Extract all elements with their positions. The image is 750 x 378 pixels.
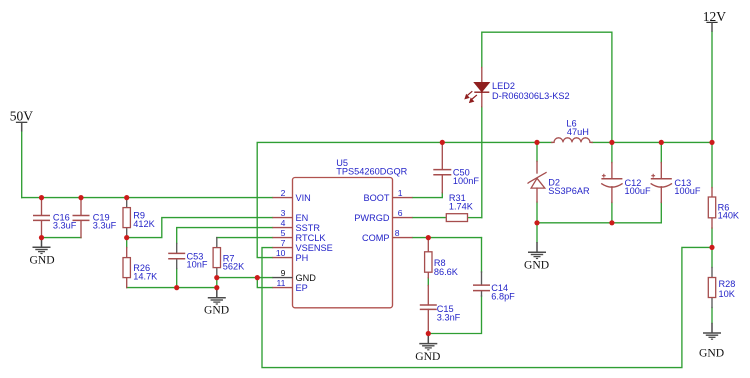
svg-text:6: 6 [398, 208, 403, 218]
wire switch rail right of L6 [592, 141, 712, 143]
svg-text:GND: GND [415, 350, 440, 363]
resistor R7 [213, 248, 220, 268]
pin stub R7 top [216, 238, 218, 248]
svg-text:SS3P6AR: SS3P6AR [548, 186, 590, 196]
node VIN/R9 [124, 195, 129, 200]
svg-text:R28: R28 [719, 279, 736, 289]
wire R28 top [711, 247, 713, 267]
wire R28 bottom [711, 308, 713, 323]
svg-text:10K: 10K [719, 289, 736, 299]
svg-text:5: 5 [281, 228, 286, 238]
svg-text:GND: GND [30, 254, 55, 267]
wire gnd stem upper link [216, 278, 218, 288]
svg-text:2: 2 [281, 188, 286, 198]
svg-text:GND: GND [699, 347, 724, 360]
svg-text:PH: PH [296, 253, 309, 263]
pin 8 COMP [393, 237, 413, 239]
pin stub C16 bottom [41, 221, 43, 238]
pin stub L6 left [552, 141, 554, 143]
resistor R6 [708, 197, 715, 218]
IC pin names right [354, 193, 390, 243]
pin stub R6 top [711, 188, 713, 197]
ground under C16 [33, 238, 51, 254]
svg-text:100uF: 100uF [625, 186, 651, 196]
svg-text:10nF: 10nF [187, 260, 208, 270]
node VIN/C16 [39, 195, 44, 200]
node VIN/C19 [78, 195, 83, 200]
IC pin numbers left [276, 188, 286, 288]
node C12 gnd rail [609, 220, 614, 225]
pin stub C53 bottom [176, 259, 178, 269]
wire C13 bottom [660, 202, 662, 222]
wire BOOT to C50 [413, 193, 443, 198]
svg-text:GND: GND [204, 304, 229, 317]
wire PWRGD to R31 [413, 217, 447, 219]
pin stub D2 top [536, 161, 538, 173]
svg-text:RTCLK: RTCLK [296, 233, 327, 243]
pin stub R7 bottom [216, 268, 218, 278]
node D2 gnd rail [534, 220, 539, 225]
resistor R26 [123, 258, 130, 278]
svg-text:11: 11 [276, 278, 285, 288]
pin stub C12 bottom [611, 187, 613, 203]
pin stub C12 top [611, 163, 613, 179]
pin stub LED bottom [481, 92, 483, 107]
svg-text:562K: 562K [223, 262, 245, 272]
wire R31 to LED branch [468, 217, 482, 219]
capacitor C50 [433, 170, 451, 175]
power port 50V [10, 109, 34, 132]
pin stub C50 bottom [441, 175, 443, 193]
svg-text:SSTR: SSTR [296, 223, 321, 233]
capacitor C19 [73, 216, 90, 221]
wire D2 bottom [536, 202, 538, 223]
pin stub C13 bottom [660, 187, 662, 203]
pin stub R6 bottom [711, 218, 713, 228]
node SW/D2 [534, 140, 539, 145]
wire VIN rail [22, 197, 273, 199]
svg-text:8: 8 [395, 228, 400, 238]
resistor R28 [708, 278, 715, 298]
wire RTCLK to R7 [217, 237, 273, 239]
pin stub R8 top [427, 238, 429, 252]
pin stub C19 bottom [80, 221, 82, 238]
pin 10 PH [273, 257, 293, 259]
svg-text:COMP: COMP [362, 233, 390, 243]
pin stub R8 mid [427, 272, 429, 278]
svg-text:10: 10 [276, 248, 286, 258]
pin 2 VIN [273, 197, 293, 199]
pin 5 RTCLK [273, 237, 293, 239]
node FB divider [709, 245, 714, 250]
svg-text:EP: EP [296, 283, 308, 293]
wire C12 top [611, 142, 613, 162]
wire R26 bottom to gnd stem [127, 287, 217, 289]
svg-text:100uF: 100uF [674, 186, 700, 196]
power port 12V [703, 9, 727, 32]
wire GND pin row [217, 277, 273, 279]
pin 4 SSTR [273, 227, 293, 229]
inductor L6 [554, 138, 590, 143]
ground under D2 [528, 242, 546, 258]
svg-text:3.3uF: 3.3uF [53, 221, 77, 231]
svg-text:14.7K: 14.7K [133, 272, 158, 282]
resistor R31 [446, 214, 467, 222]
pin 1 BOOT [393, 197, 413, 199]
RED COMPONENT PINS [42, 68, 713, 334]
wire C13 top [660, 142, 662, 162]
wire VSENSE feedback loop [262, 247, 712, 367]
pin stub C50 top [441, 142, 443, 169]
pin stub R9 top [126, 198, 128, 208]
svg-text:4: 4 [281, 218, 286, 228]
wire EN from R9/R26 divider [127, 218, 273, 238]
pin stub L6 right [590, 141, 592, 143]
wire output gnd rail [537, 222, 661, 224]
pin stub C13 top [660, 163, 662, 179]
svg-text:6.8pF: 6.8pF [491, 292, 515, 302]
svg-text:412K: 412K [133, 219, 155, 229]
svg-text:VSENSE: VSENSE [296, 243, 333, 253]
polarized capacitor C12 [601, 174, 622, 187]
svg-text:3.3nF: 3.3nF [437, 313, 461, 323]
pin 9 GND gray [273, 277, 293, 279]
svg-text:1: 1 [398, 188, 403, 198]
wire R8-C15 mid [427, 278, 429, 286]
svg-text:3.3uF: 3.3uF [93, 221, 117, 231]
svg-text:9: 9 [281, 268, 286, 278]
wire R6 bottom [711, 228, 713, 247]
pin stub C14 bottom [481, 291, 483, 296]
node COMP/R8 [426, 235, 431, 240]
IC pin numbers right [395, 188, 403, 238]
wire C14 bottom to C15 [428, 296, 481, 334]
node C53 gnd [174, 285, 179, 290]
pin stub C15 top [427, 286, 429, 305]
wire C12 bottom [611, 202, 613, 222]
wire C16-C19 bottom link [42, 237, 82, 239]
GRAY COMPONENT PINS [127, 198, 712, 308]
svg-text:7: 7 [281, 238, 286, 248]
svg-text:VIN: VIN [296, 193, 311, 203]
svg-text:TPS54260DGQR: TPS54260DGQR [336, 167, 407, 177]
svg-text:140K: 140K [718, 211, 740, 221]
node R7 gnd [214, 275, 219, 280]
pin 3 EN [273, 217, 293, 219]
svg-text:50V: 50V [10, 109, 34, 124]
pin stub R28 top [711, 268, 713, 278]
capacitor C53 [168, 253, 185, 258]
svg-text:D-R060306L3-KS2: D-R060306L3-KS2 [492, 91, 570, 101]
pin stub D2 bottom [536, 188, 538, 202]
node VOUT/12V [709, 140, 714, 145]
svg-text:100nF: 100nF [453, 176, 479, 186]
capacitor C16 [33, 216, 50, 221]
pin stub C14 top [481, 272, 483, 285]
svg-text:1.74K: 1.74K [449, 201, 474, 211]
capacitor C14 [473, 285, 490, 291]
node gnd stem [214, 285, 219, 290]
wire C53 bottom [176, 269, 178, 288]
node EP/GND [255, 275, 260, 280]
wire COMP row [413, 237, 482, 239]
pin stub R26 bottom [126, 278, 128, 288]
pin stub R9 bottom [126, 228, 128, 238]
svg-text:GND: GND [524, 259, 549, 272]
node C15/C14 gnd [426, 331, 431, 336]
wire rail to R6 [711, 142, 713, 187]
node VOUT/C13 [659, 140, 664, 145]
node C16 gnd [39, 235, 44, 240]
wire 50V vertical [21, 132, 23, 198]
svg-text:3: 3 [281, 208, 286, 218]
svg-text:PWRGD: PWRGD [354, 213, 390, 223]
resistor R9 [123, 208, 130, 228]
capacitor C15 [420, 305, 437, 309]
LED LED2 [465, 83, 489, 103]
pin 6 PWRGD [393, 217, 413, 219]
wire PH to switch rail [257, 142, 552, 257]
node R9/R26/EN [124, 235, 129, 240]
pin stub R28 bottom [711, 298, 713, 308]
pin stub R26 top [126, 248, 128, 258]
svg-text:86.6K: 86.6K [434, 267, 459, 277]
pin stub LED top [481, 68, 483, 83]
wire LED top loop [482, 32, 612, 142]
svg-text:12V: 12V [703, 9, 727, 24]
wire C14 top [481, 238, 483, 272]
node VOUT/C12 [609, 140, 614, 145]
polarized capacitor C13 [651, 174, 672, 187]
IC pins left [273, 198, 293, 288]
wire EP pin [257, 278, 272, 288]
IC pins right [393, 198, 413, 238]
IC pin names left [296, 193, 333, 293]
pin stub C15 bottom [427, 310, 429, 334]
pin 11 EP [273, 287, 293, 289]
wire 12V vertical [711, 32, 713, 143]
schottky diode D2 [528, 172, 547, 188]
ground under C15 [419, 334, 437, 350]
resistor R8 [425, 252, 432, 272]
svg-text:EN: EN [296, 213, 309, 223]
node SW/C50 [440, 140, 445, 145]
svg-text:47uH: 47uH [567, 127, 589, 137]
wire LED lower branch [481, 107, 483, 218]
wire SSTR to C53 [177, 228, 273, 244]
pin 7 VSENSE [273, 247, 293, 249]
ground under R28 [703, 323, 721, 339]
svg-text:LED2: LED2 [492, 81, 515, 91]
pin stub C16 top [41, 198, 43, 216]
wire D2 top [536, 142, 538, 161]
ground under IC (R7 stem) [208, 288, 226, 304]
wire R26 top [126, 238, 128, 248]
pin stub C19 top [80, 198, 82, 216]
pin stub C53 top [176, 244, 178, 254]
IC U5 TPS54260DGQR body [293, 178, 393, 308]
svg-text:GND: GND [296, 273, 317, 283]
wire D2 gnd [536, 223, 538, 242]
svg-text:BOOT: BOOT [363, 193, 389, 203]
